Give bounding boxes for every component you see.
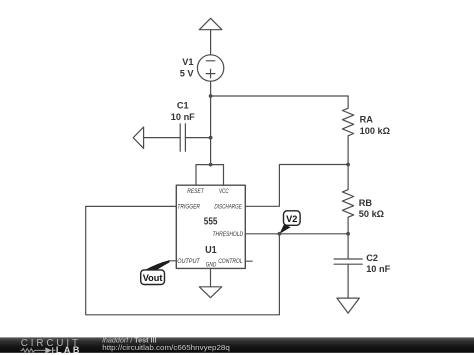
wire (86, 206, 280, 314)
wire (210, 268, 212, 286)
wire (347, 234, 349, 259)
wire (211, 95, 349, 97)
flag V2 (279, 211, 300, 234)
ground (left of C1, rotated) (133, 127, 143, 148)
node (RA / RB / discharge junction) (346, 163, 350, 167)
wire (347, 264, 349, 298)
svg-text:5 V: 5 V (180, 69, 195, 79)
IC U1 555 timer (176, 185, 245, 268)
svg-text:10 nF: 10 nF (366, 264, 390, 274)
ground (below C2) (337, 298, 359, 313)
svg-text:C2: C2 (366, 253, 378, 263)
node (RB / C2 / threshold junction) (346, 232, 350, 236)
node (V1 / RA branch) (209, 94, 213, 98)
flag Vout (141, 260, 170, 284)
wire (196, 165, 224, 186)
svg-text:10 nF: 10 nF (171, 112, 195, 122)
svg-text:Vout: Vout (143, 273, 163, 283)
svg-text:100 kΩ: 100 kΩ (360, 126, 390, 136)
svg-text:U1: U1 (205, 244, 217, 256)
svg-text:555: 555 (204, 216, 218, 228)
wire (245, 165, 348, 207)
capacitor C2 10 nF (334, 253, 390, 274)
svg-text:RESET: RESET (187, 188, 204, 195)
ground (top, at V1 negative terminal, rotated up) (199, 18, 222, 29)
CircuitLab logo diode (45, 347, 52, 353)
wire (185, 137, 210, 139)
wire (347, 217, 349, 234)
svg-text:V1: V1 (182, 57, 193, 67)
wire (347, 165, 349, 190)
wire (169, 260, 177, 262)
svg-text:LAB: LAB (56, 345, 80, 355)
svg-text:GND: GND (206, 262, 217, 269)
resistor RB 50 kΩ (342, 190, 384, 219)
wire (210, 30, 212, 55)
wire (245, 260, 252, 262)
ground (below U1 GND pin) (199, 287, 221, 298)
svg-text:RA: RA (360, 115, 374, 125)
svg-text:DISCHARGE: DISCHARGE (214, 204, 242, 211)
wire (144, 137, 181, 139)
CircuitLab logo resistor zigzag (21, 349, 46, 353)
svg-text:CONTROL: CONTROL (218, 258, 243, 265)
svg-text:C1: C1 (177, 101, 189, 111)
svg-text:VCC: VCC (219, 188, 229, 195)
wire (245, 233, 348, 235)
wire (347, 136, 349, 165)
svg-text:OUTPUT: OUTPUT (177, 258, 200, 265)
node (VCC / RESET tie) (209, 163, 213, 167)
node (C1 / supply rail) (209, 136, 213, 140)
svg-text:THRESHOLD: THRESHOLD (213, 231, 244, 238)
svg-text:RB: RB (359, 198, 373, 208)
wire (347, 96, 349, 108)
wire (210, 81, 212, 164)
node (trigger / threshold / V2 attach) (278, 232, 282, 236)
svg-text:V2: V2 (286, 214, 297, 224)
voltage source V1 5 V (180, 55, 224, 81)
capacitor C1 10 nF (171, 101, 195, 152)
footer bar (0, 337, 474, 355)
resistor RA 100 kΩ (342, 108, 390, 136)
svg-text:http://circuitlab.com/c665hnvy: http://circuitlab.com/c665hnvyep28q (102, 343, 230, 352)
svg-text:50 kΩ: 50 kΩ (359, 209, 384, 219)
svg-text:TRIGGER: TRIGGER (177, 204, 200, 211)
